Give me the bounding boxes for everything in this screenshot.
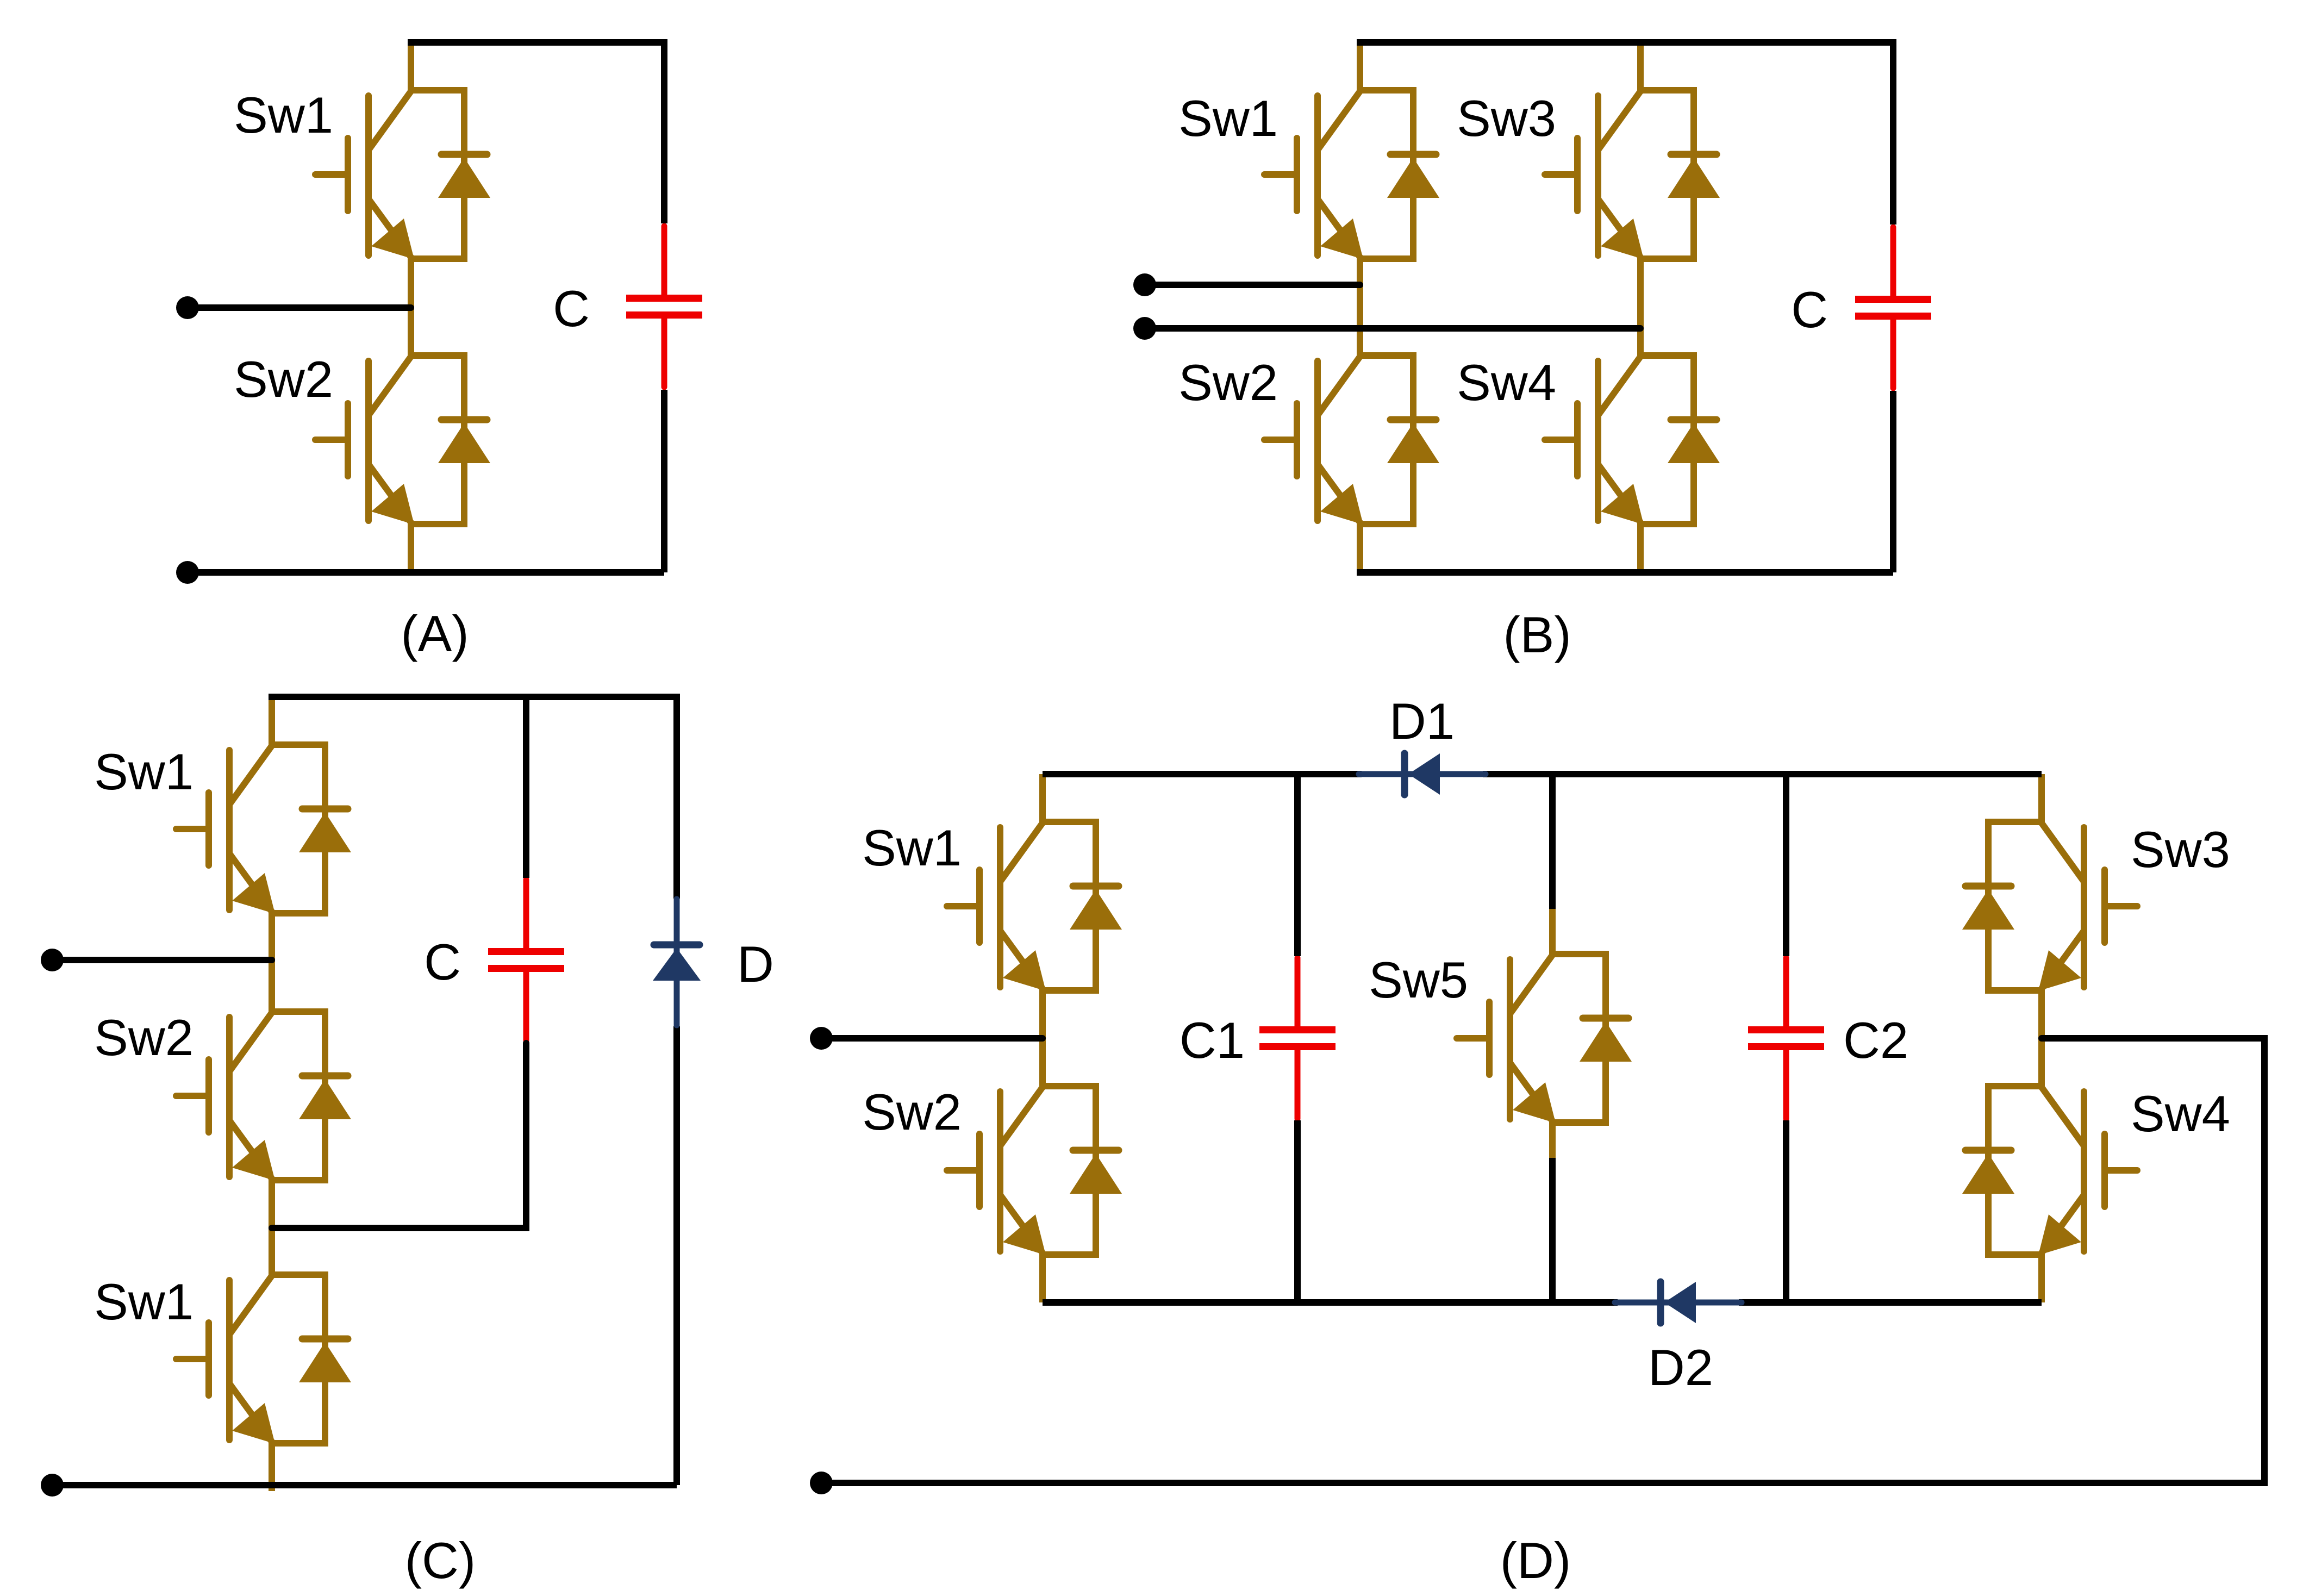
svg-text:(C): (C): [405, 1532, 476, 1589]
svg-text:Sw2: Sw2: [234, 351, 333, 408]
svg-text:C: C: [424, 933, 461, 990]
svg-text:Sw1: Sw1: [862, 819, 962, 876]
svg-text:C: C: [553, 280, 590, 337]
svg-text:Sw2: Sw2: [862, 1083, 962, 1140]
svg-text:Sw3: Sw3: [1457, 90, 1556, 147]
svg-text:C: C: [1791, 281, 1828, 338]
svg-text:D2: D2: [1648, 1339, 1713, 1396]
svg-text:D: D: [737, 936, 774, 993]
svg-text:Sw1: Sw1: [94, 1273, 194, 1330]
svg-text:(B): (B): [1503, 606, 1571, 663]
svg-text:C1: C1: [1180, 1012, 1245, 1069]
svg-text:Sw2: Sw2: [94, 1009, 194, 1066]
svg-text:Sw1: Sw1: [94, 743, 194, 800]
svg-text:Sw4: Sw4: [2131, 1085, 2230, 1142]
svg-text:Sw5: Sw5: [1369, 951, 1468, 1008]
svg-text:C2: C2: [1843, 1012, 1908, 1069]
svg-text:(D): (D): [1500, 1532, 1571, 1589]
svg-text:Sw3: Sw3: [2131, 821, 2230, 878]
svg-text:Sw1: Sw1: [1178, 90, 1278, 147]
svg-text:(A): (A): [401, 605, 469, 662]
svg-text:Sw2: Sw2: [1178, 354, 1278, 411]
svg-text:Sw4: Sw4: [1457, 354, 1556, 411]
svg-text:D1: D1: [1389, 693, 1455, 750]
svg-text:Sw1: Sw1: [234, 86, 333, 144]
